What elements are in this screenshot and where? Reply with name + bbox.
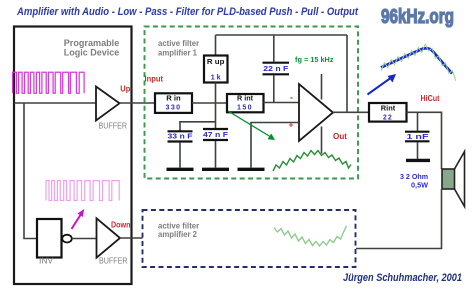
frequency response curve (blue) bbox=[381, 48, 452, 73]
svg-text:Input: Input bbox=[145, 74, 164, 83]
wire: R int to op-amp inverting input bbox=[264, 102, 300, 104]
buffer U1 (Up) bbox=[96, 87, 120, 121]
svg-text:Amplifier with Audio - Low - P: Amplifier with Audio - Low - Pass - Filt… bbox=[16, 6, 359, 18]
resistor R in bbox=[155, 93, 192, 113]
inverter INV bbox=[37, 219, 62, 258]
svg-text:22: 22 bbox=[383, 112, 393, 121]
noisy overlay on curve (light green) bbox=[381, 44, 456, 81]
svg-text:47 n F: 47 n F bbox=[203, 130, 228, 139]
capacitor 22 nF bbox=[263, 62, 290, 64]
wire: speaker bottom to amplifier 2 bbox=[356, 189, 442, 249]
wire: branch down to inverter bbox=[24, 103, 37, 239]
svg-text:-: - bbox=[290, 92, 293, 102]
svg-text:active filter: active filter bbox=[158, 39, 199, 48]
svg-text:HiCut: HiCut bbox=[421, 94, 440, 103]
svg-text:330: 330 bbox=[166, 102, 182, 111]
active filter amplifier 1 dashed box bbox=[145, 27, 359, 179]
capacitor 22 nF stem top bbox=[273, 35, 275, 62]
svg-text:150: 150 bbox=[237, 102, 253, 111]
svg-text:R up: R up bbox=[207, 57, 225, 66]
inverter bubble bbox=[62, 235, 72, 243]
op-amp U1 bbox=[299, 84, 333, 141]
capacitor 1 nF bbox=[405, 131, 430, 133]
filtered sine signal 2 (light green) bbox=[274, 226, 347, 246]
PLD box bbox=[14, 27, 132, 285]
wire: R in to R int bbox=[192, 102, 227, 104]
svg-text:0,5W: 0,5W bbox=[411, 181, 429, 190]
wire: op-amp output bbox=[333, 111, 369, 113]
capacitor 1 nF stem bbox=[417, 112, 419, 130]
ground (33 nF) bbox=[167, 168, 194, 171]
svg-text:Logic Device: Logic Device bbox=[64, 48, 120, 59]
active filter amplifier 2 dashed box bbox=[143, 210, 356, 267]
svg-text:R in: R in bbox=[166, 93, 181, 102]
op-amp power pin bottom bbox=[321, 127, 323, 154]
ground (47 nF) bbox=[202, 168, 229, 171]
wire: R up stem bottom to node bbox=[215, 83, 217, 104]
PWM signal up (magenta) bbox=[13, 72, 85, 93]
capacitor 33 nF bbox=[168, 130, 193, 132]
magenta arrow annotation bbox=[72, 213, 83, 230]
wire: buffer U1 output to R in bbox=[120, 102, 156, 104]
svg-text:1 k: 1 k bbox=[211, 72, 222, 81]
svg-text:+: + bbox=[289, 119, 294, 129]
wire: Rint to speaker bbox=[407, 112, 442, 169]
svg-text:R int: R int bbox=[237, 93, 253, 102]
svg-text:Out: Out bbox=[333, 132, 347, 141]
svg-text:fg = 15 kHz: fg = 15 kHz bbox=[295, 55, 334, 64]
svg-text:BUFFER: BUFFER bbox=[99, 120, 128, 130]
svg-text:INV: INV bbox=[39, 256, 54, 266]
wire: branch to C 33nF bbox=[180, 122, 216, 131]
capacitor 47 nF bbox=[203, 128, 228, 130]
resistor R up bbox=[204, 56, 228, 83]
svg-text:amplifier 2: amplifier 2 bbox=[158, 230, 198, 239]
green arrow annotation (points to sine) bbox=[228, 111, 270, 137]
wire: non-inverting input to ground bbox=[251, 123, 299, 168]
wire: bubble to buffer U2 bbox=[72, 238, 97, 240]
blue arrow annotation bbox=[368, 77, 393, 95]
wire: feedback top rail bbox=[216, 34, 348, 36]
wire: PLD input to buffer U1 bbox=[14, 102, 96, 104]
filtered sine signal (dark green) bbox=[273, 151, 351, 172]
svg-text:Up: Up bbox=[120, 84, 130, 94]
svg-text:Jürgen Schuhmacher, 2001: Jürgen Schuhmacher, 2001 bbox=[343, 272, 462, 284]
resistor Rint bbox=[369, 103, 407, 122]
svg-text:22 n F: 22 n F bbox=[263, 64, 288, 73]
svg-text:Rint: Rint bbox=[381, 104, 396, 113]
op-amp power pin top bbox=[321, 74, 323, 100]
ground (1 nF) bbox=[406, 159, 430, 162]
svg-text:96kHz.org: 96kHz.org bbox=[381, 6, 454, 28]
wire: node down to C 47nF bbox=[215, 103, 217, 128]
svg-text:BUFFER: BUFFER bbox=[99, 256, 128, 266]
speaker LS1 bbox=[442, 169, 455, 189]
wire: 22 nF bottom to inverting input node bbox=[273, 75, 275, 102]
buffer U2 (Down) bbox=[97, 218, 121, 257]
wire: feedback vertical bbox=[346, 35, 348, 112]
wire: buffer U2 output into amplifier 2 bbox=[120, 237, 143, 239]
svg-text:1 nF: 1 nF bbox=[407, 132, 430, 141]
svg-text:33 n F: 33 n F bbox=[168, 132, 193, 141]
svg-text:amplifier 1: amplifier 1 bbox=[158, 49, 198, 58]
resistor R int bbox=[227, 94, 264, 112]
PWM signal down (pink) bbox=[46, 181, 119, 201]
svg-text:Down: Down bbox=[111, 220, 131, 230]
ground (op-amp +) bbox=[238, 168, 265, 171]
wire: R up stem top bbox=[215, 35, 217, 56]
